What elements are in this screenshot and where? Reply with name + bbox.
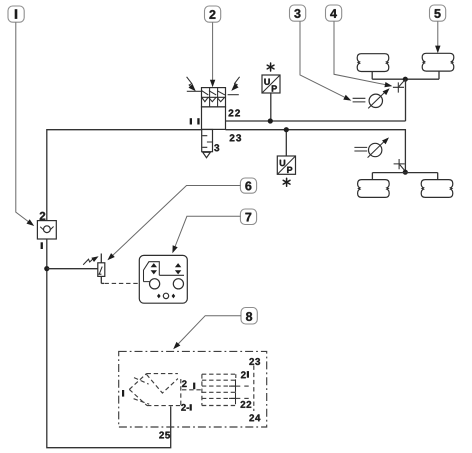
air spring 5 (front right) <box>422 53 454 71</box>
bottom row: diamond, circle, diamond <box>157 294 161 299</box>
test gauge front <box>368 90 387 109</box>
test point cross rear <box>394 159 405 169</box>
ECU valve inner chevron lower <box>134 399 150 405</box>
silencer 3 <box>202 130 213 152</box>
wire: check valve down to junction and on to bottom <box>47 239 171 448</box>
leader from callout 7 <box>174 216 240 248</box>
exhaust triangle <box>203 152 211 157</box>
diagonal cross to rear junction <box>400 165 405 171</box>
wire: rear right bag riser <box>437 173 439 180</box>
label 2 (valve) <box>182 380 187 387</box>
air spring 4 (front left) <box>357 54 389 72</box>
wire: front junction down to line 22 <box>405 79 407 121</box>
arrowhead leader 3 <box>343 95 352 103</box>
connector pin cross 22 <box>229 392 240 404</box>
asterisk below lower sensor <box>283 178 290 186</box>
test port dashes rear <box>354 147 367 151</box>
junction dot at supply branch <box>44 266 49 271</box>
truck wheel right <box>173 279 183 289</box>
air spring rear left <box>358 180 390 198</box>
dashed link to connector <box>182 389 202 391</box>
arrow pair left (raise/lower) <box>151 263 157 267</box>
junction dot front axle <box>403 77 408 82</box>
gauge arrowhead front <box>383 86 392 95</box>
diagonal cross to front junction <box>399 80 405 86</box>
wire: front right bag drop <box>438 71 440 79</box>
leader from callout 2 <box>212 22 214 82</box>
label 1 (check valve port) <box>41 242 43 249</box>
gauge arrowhead rear <box>382 136 391 145</box>
label 22 (pin) <box>241 401 252 408</box>
label 23 (pin) <box>249 358 260 365</box>
leader from callout 8 <box>176 316 241 346</box>
label 11 <box>190 118 192 124</box>
label 24 (pin) <box>249 414 260 421</box>
asterisk above upper sensor <box>267 63 274 71</box>
callout 2 <box>205 6 221 22</box>
leader from callout 4 <box>334 21 390 85</box>
test gauge rear <box>368 139 387 158</box>
pin stub to 22 <box>244 397 251 399</box>
wire: front axle junction line <box>372 78 439 80</box>
solenoid lightning left <box>187 77 194 89</box>
truck chassis line <box>159 274 184 276</box>
label 22 <box>229 109 240 116</box>
arrowhead leader 8 <box>171 342 180 351</box>
arrow pair right (raise/lower) <box>175 263 181 267</box>
ECU valve symbol outer edges (dashed diamond) <box>129 374 146 390</box>
label 2-1 (valve) <box>181 404 189 411</box>
callout 6 <box>240 178 256 193</box>
remote control unit 7 <box>139 255 187 303</box>
dashed vertical 23-24 <box>253 366 255 412</box>
callout 7 <box>240 209 256 225</box>
lightning arrow at switch 6 <box>83 259 93 265</box>
callout 3 <box>290 5 306 21</box>
wire: front left bag drop <box>371 72 373 80</box>
label 3 <box>214 144 219 151</box>
wire: port 22 line to right <box>226 120 406 122</box>
label 1 (valve port, diamond) <box>122 390 124 397</box>
connector pin cross 21 <box>229 379 240 392</box>
ECU valve inner V <box>147 374 178 393</box>
callout 1 <box>8 6 24 22</box>
arrowhead leader 2 <box>210 80 215 88</box>
arrowhead leader 7 <box>170 245 178 254</box>
leader from callout 5 <box>437 21 439 48</box>
air spring rear right <box>421 180 453 198</box>
wire: rear left bag riser <box>371 173 373 180</box>
wire: lower sensor to line 23 <box>285 130 287 156</box>
node dot on line 23 <box>284 127 289 132</box>
test point cross front <box>393 82 404 92</box>
label 2 (check valve port) <box>40 212 46 220</box>
pressure switch 6 <box>98 254 105 284</box>
arrowhead leader 6 <box>106 253 115 262</box>
dashed control line to remote unit <box>101 282 104 284</box>
label 25 (supply wire) <box>159 432 170 439</box>
truck cab icon <box>144 262 160 282</box>
label 21 (pin) <box>241 371 246 378</box>
valve main body <box>202 107 226 129</box>
label 23 <box>230 134 241 141</box>
ECU valve inner chevron upper <box>134 378 149 385</box>
pin stub to 21 <box>244 385 251 387</box>
leader from callout 6 <box>112 186 241 257</box>
arrowhead leader 1 <box>26 219 35 228</box>
callout 8 <box>241 308 257 325</box>
pressure sensor B2 (U/P lower) <box>277 156 295 174</box>
callout 5 <box>430 5 446 21</box>
leader from callout 3 <box>300 21 349 99</box>
connector rows <box>202 380 236 398</box>
wire: upper sensor to line 22 <box>270 93 272 121</box>
connector grid outline <box>202 374 236 405</box>
test port dashes front <box>353 98 366 102</box>
leader from callout 1 <box>16 22 32 224</box>
label 1 (connector) <box>193 383 195 390</box>
solenoid valve block U2 : pilot section (3 cells with diagonals) <box>202 88 226 107</box>
wire: branch to pressure switch <box>47 268 98 270</box>
node dot on line 22 <box>268 118 273 123</box>
wire: port 11 line to left and down to check valve <box>47 130 202 221</box>
ECU enclosure 8 (dash-dot box) <box>119 351 267 427</box>
arrowhead leader 4 <box>384 82 393 89</box>
arrowhead leader 5 <box>435 46 440 54</box>
truck wheel left <box>150 279 160 289</box>
check valve 2 (line filter) <box>37 221 56 239</box>
callout 4 <box>326 5 342 21</box>
valve block spring row (3 chevrons) <box>202 97 225 101</box>
ECU valve right dashed vertical <box>180 379 182 406</box>
wire: rear axle junction line <box>372 172 437 174</box>
solenoid lightning right <box>233 77 239 89</box>
pressure sensor B1 (U/P upper) <box>262 75 280 93</box>
wire: port 23 line to right and down to rear junction <box>226 130 406 172</box>
junction dot rear axle <box>403 170 408 175</box>
